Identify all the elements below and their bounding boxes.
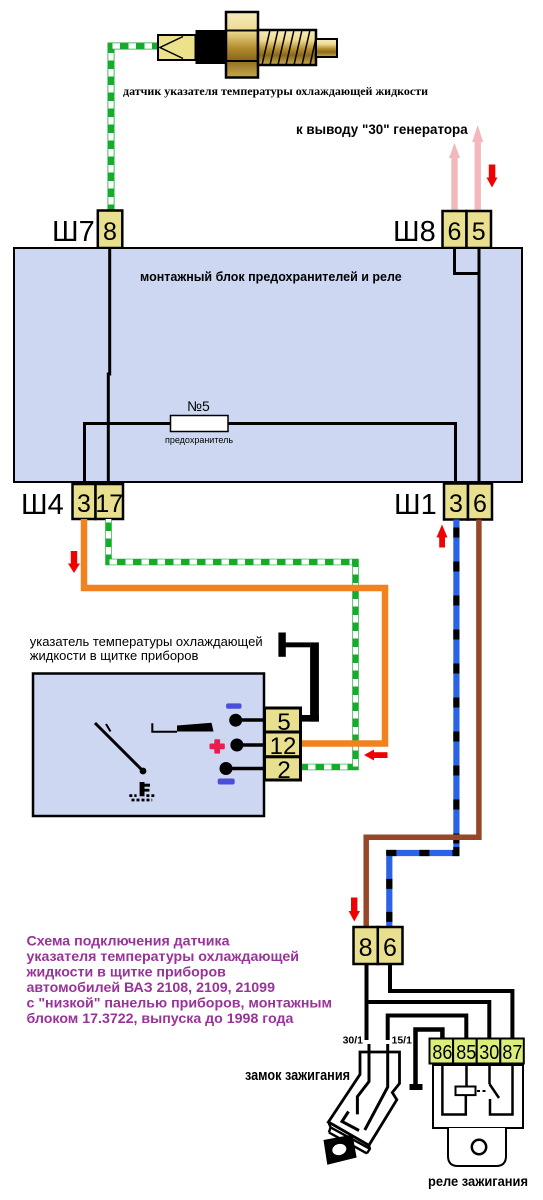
arrow red down top <box>487 165 498 188</box>
connector box 8 <box>354 927 378 964</box>
wire orange Ш4-3 to gauge pin 12 <box>84 519 385 744</box>
svg-text:указатель температуры охлаждаю: указатель температуры охлаждающей <box>30 634 263 649</box>
arrow red left at gauge <box>364 750 388 761</box>
svg-text:блоком 17.3722, выпуска до 199: блоком 17.3722, выпуска до 1998 года <box>27 1011 294 1027</box>
ignition lock moving contact <box>342 1112 359 1131</box>
relay coil circuit from 86 <box>442 1065 465 1115</box>
black ground wire from pin 5 <box>278 633 319 722</box>
svg-text:Схема подключения датчика: Схема подключения датчика <box>27 934 230 950</box>
wire: green dashed from sensor to Ш7 pin 8 <box>111 46 158 210</box>
minus sign below pin 2 <box>218 779 235 785</box>
gauge needle <box>95 723 143 771</box>
svg-text:8: 8 <box>359 934 373 962</box>
svg-text:предохранитель: предохранитель <box>165 435 233 445</box>
svg-text:17: 17 <box>95 490 123 518</box>
relay mounting tab <box>448 1128 506 1166</box>
caption magenta text <box>26 934 333 1028</box>
svg-text:датчик указателя температуры о: датчик указателя температуры охлаждающей… <box>123 84 428 98</box>
arrow pink up tall <box>472 125 483 211</box>
svg-text:Ш4: Ш4 <box>21 489 64 521</box>
gauge box <box>33 674 264 817</box>
wire brown Ш1-6 down <box>366 520 479 928</box>
wire fuse bus <box>85 424 456 487</box>
svg-text:30/1: 30/1 <box>343 1035 364 1047</box>
svg-text:Ш7: Ш7 <box>52 216 95 248</box>
wire relay 86 to ground <box>416 1030 443 1085</box>
relay pin 30 <box>477 1039 501 1064</box>
svg-text:Ш8: Ш8 <box>393 216 436 248</box>
connector Ш1 pin 6 <box>468 484 492 520</box>
ignition lock contact 15/1 <box>365 1044 388 1130</box>
fuse F5 <box>171 416 229 432</box>
gauge pin 2 dot and lead <box>226 767 265 771</box>
wire green dashed Ш4-17 to gauge pin 2 <box>109 519 356 767</box>
svg-text:3: 3 <box>77 490 91 518</box>
connector Ш8 pin 5 <box>467 211 492 248</box>
svg-text:автомобилей ВАЗ 2108, 2109, 21: автомобилей ВАЗ 2108, 2109, 21099 <box>27 980 276 996</box>
gauge ground F symbol <box>140 782 150 796</box>
block: монтажный блок <box>14 248 522 482</box>
svg-text:2: 2 <box>277 757 290 784</box>
svg-text:85: 85 <box>456 1041 476 1064</box>
svg-text:реле зажигания: реле зажигания <box>428 1173 528 1189</box>
gauge pin box 12 <box>265 732 301 757</box>
svg-text:жидкости в щитке приборов: жидкости в щитке приборов <box>30 648 199 663</box>
ignition lock body <box>328 1052 399 1145</box>
connector Ш4 pin 3 <box>73 484 96 519</box>
relay switch from 30 <box>488 1065 491 1084</box>
wire 6 to relay 87 <box>390 964 512 1039</box>
wire 8 to 30/1 <box>365 964 369 1040</box>
wire 8 branch to relay 30 <box>367 1002 490 1039</box>
svg-text:6: 6 <box>383 934 397 962</box>
ignition lock key head <box>324 1135 357 1165</box>
minus sign above pin 5 <box>226 703 241 708</box>
gauge pin box 2 <box>265 757 301 780</box>
svg-text:3: 3 <box>449 490 463 518</box>
connector Ш8 pin 6 <box>443 211 467 248</box>
relay body <box>433 1065 523 1128</box>
svg-text:5: 5 <box>472 218 486 246</box>
relay pin 85 <box>453 1039 477 1064</box>
svg-text:8: 8 <box>103 218 117 246</box>
relay contact to 87 <box>490 1065 513 1115</box>
svg-text:жидкости в щитке приборов: жидкости в щитке приборов <box>26 965 227 981</box>
wire Ш8-5 to Ш1-6 <box>478 248 481 486</box>
svg-text:Ш1: Ш1 <box>394 489 437 521</box>
gauge pin 12 dot and lead <box>237 743 265 747</box>
svg-text:замок зажигания: замок зажигания <box>245 1068 350 1084</box>
connector box 6 <box>378 927 403 964</box>
svg-text:6: 6 <box>473 490 487 518</box>
arrow red down left <box>68 551 80 573</box>
relay tab hole <box>472 1140 486 1154</box>
relay dashed actuator link <box>477 1090 488 1092</box>
relay pin 86 <box>430 1039 454 1064</box>
svg-text:87: 87 <box>502 1041 522 1064</box>
svg-text:с "низкой" панелью приборов, м: с "низкой" панелью приборов, монтажным <box>27 996 333 1012</box>
wire pin8 to pin17 inside block <box>108 248 109 486</box>
plus sign left of pin 12 <box>210 739 225 753</box>
arrow pink up short <box>449 143 460 211</box>
svg-text:30: 30 <box>479 1041 499 1064</box>
svg-text:монтажный блок предохранителей: монтажный блок предохранителей и реле <box>140 270 402 284</box>
gauge heater element <box>152 723 177 732</box>
arrow red up at Ш1-3 <box>437 525 448 548</box>
ignition lock collar <box>328 1122 370 1153</box>
wire Ш8-6 jumper <box>455 248 480 274</box>
svg-text:№5: №5 <box>187 398 210 414</box>
wire blue dashed Ш1-3 down <box>389 520 456 928</box>
relay coil from 85 <box>465 1065 468 1087</box>
svg-text:6: 6 <box>448 218 462 246</box>
gauge pin box 5 <box>265 708 301 732</box>
relay pin 87 <box>500 1039 524 1064</box>
relay coil <box>456 1087 476 1096</box>
svg-text:указателя температуры охлаждаю: указателя температуры охлаждающей <box>27 949 300 965</box>
svg-text:к выводу "30" генератора: к выводу "30" генератора <box>296 122 468 137</box>
gauge pin 5 dot and lead <box>236 718 265 722</box>
connector Ш4 pin 17 <box>96 484 124 519</box>
connector Ш1 pin 3 <box>444 484 468 520</box>
arrow red down above connector 8 <box>349 898 360 922</box>
ground bar for relay 86 <box>410 1084 423 1090</box>
ignition lock contact 30/1 <box>357 1044 369 1114</box>
wire 15/1 to relay 85 <box>388 1016 467 1041</box>
sensor B1 coolant temperature sensor <box>158 12 337 78</box>
svg-text:15/1: 15/1 <box>392 1035 413 1047</box>
svg-text:86: 86 <box>432 1041 452 1064</box>
connector Ш7 pin 8 <box>98 211 123 249</box>
